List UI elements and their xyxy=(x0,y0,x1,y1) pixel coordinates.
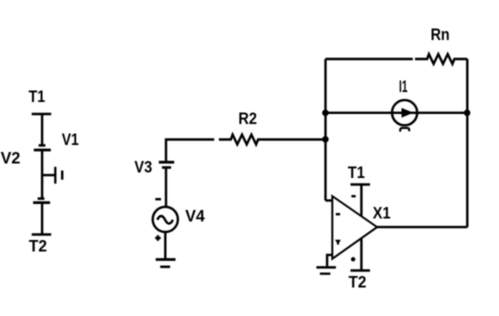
svg-text:V1: V1 xyxy=(62,130,79,149)
svg-text:T1: T1 xyxy=(348,163,365,182)
svg-text:V3: V3 xyxy=(134,158,152,177)
svg-text:X1: X1 xyxy=(373,204,391,223)
svg-text:R2: R2 xyxy=(238,109,257,128)
svg-text:V4: V4 xyxy=(185,207,205,226)
svg-text:V2: V2 xyxy=(1,148,21,167)
svg-text:T2: T2 xyxy=(29,236,47,255)
svg-text:I1: I1 xyxy=(399,77,408,96)
svg-text:T1: T1 xyxy=(29,87,46,106)
svg-text:T2: T2 xyxy=(349,273,367,292)
svg-text:Rn: Rn xyxy=(431,25,450,44)
